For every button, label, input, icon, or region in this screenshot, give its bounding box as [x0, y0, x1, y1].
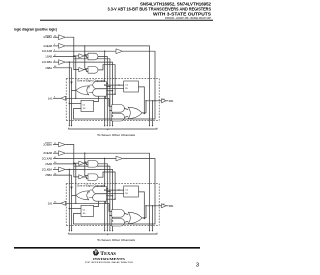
svg-text:1OEBA: 1OEBA — [43, 35, 52, 39]
svg-text:2CLKBA: 2CLKBA — [42, 167, 52, 171]
svg-text:INSTRUMENTS: INSTRUMENTS — [93, 257, 125, 261]
svg-text:WITH 3-STATE OUTPUTS: WITH 3-STATE OUTPUTS — [153, 11, 211, 16]
svg-text:2B1: 2B1 — [169, 204, 174, 208]
svg-text:1OEAB: 1OEAB — [43, 44, 52, 48]
svg-text:1CLKBA: 1CLKBA — [42, 60, 52, 64]
svg-text:To Seven Other Channels: To Seven Other Channels — [97, 133, 136, 137]
svg-text:logic diagram (positive logic): logic diagram (positive logic) — [14, 27, 57, 31]
svg-text:1CLKAB: 1CLKAB — [42, 49, 52, 53]
svg-text:2OEBA: 2OEBA — [43, 143, 52, 147]
svg-text:1SAB: 1SAB — [45, 55, 52, 59]
svg-text:2SBA: 2SBA — [45, 173, 52, 177]
svg-text:1B1: 1B1 — [169, 99, 174, 103]
svg-text:1D: 1D — [83, 108, 86, 110]
svg-text:2CLKAB: 2CLKAB — [42, 157, 52, 161]
svg-text:2SAB: 2SAB — [45, 162, 52, 166]
svg-text:POST OFFICE BOX 655303 • DALLA: POST OFFICE BOX 655303 • DALLAS, TEXAS 7… — [85, 261, 133, 264]
svg-text:2OEAB: 2OEAB — [43, 151, 52, 155]
svg-text:SCBS231D – JANUARY 1995 – REVI: SCBS231D – JANUARY 1995 – REVISED JANUAR… — [165, 17, 212, 20]
svg-text:1D: 1D — [125, 193, 128, 195]
svg-text:One of Eight Channels: One of Eight Channels — [77, 184, 106, 188]
svg-text:3: 3 — [196, 262, 199, 268]
svg-text:To Seven Other Channels: To Seven Other Channels — [97, 238, 136, 242]
svg-text:One of Eight Channels: One of Eight Channels — [77, 79, 106, 83]
svg-text:2A1: 2A1 — [48, 201, 53, 205]
svg-text:1D: 1D — [83, 213, 86, 215]
svg-text:1D: 1D — [125, 88, 128, 90]
svg-text:1SBA: 1SBA — [45, 66, 52, 70]
svg-text:1A1: 1A1 — [48, 96, 53, 100]
